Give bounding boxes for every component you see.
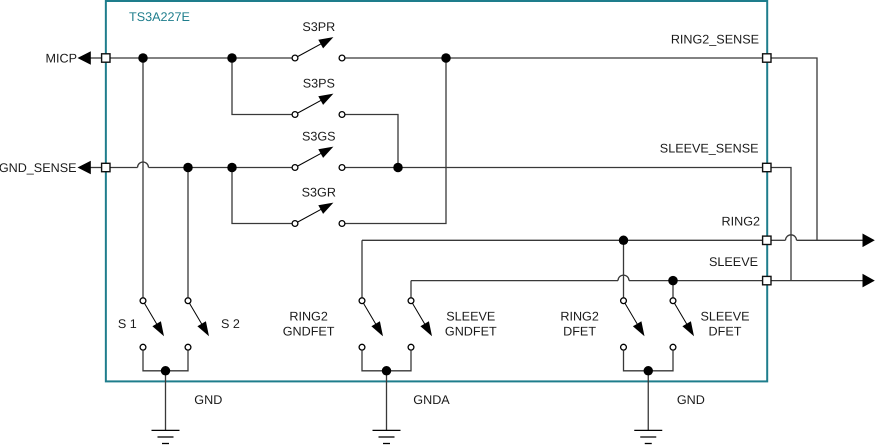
svg-text:S3PR: S3PR xyxy=(302,20,335,34)
svg-text:RING2: RING2 xyxy=(289,310,328,324)
svg-text:GND: GND xyxy=(677,393,705,407)
wire RING2 external to arrow xyxy=(797,239,864,241)
arrow GND_SENSE input xyxy=(78,161,91,175)
ground GND xyxy=(152,430,180,443)
wire GNDFET common bus xyxy=(362,351,411,431)
wire hop SLEEVE over RING2 DFET feed xyxy=(618,275,629,281)
wire hop GND_SENSE over S1 feed xyxy=(138,162,149,168)
arrow SLEEVE output xyxy=(863,274,875,288)
pin RING2 port xyxy=(763,236,771,244)
wire RING2 to RING2 DFET xyxy=(623,240,625,297)
svg-text:GND_SENSE: GND_SENSE xyxy=(0,161,77,175)
switch S2 xyxy=(185,298,209,350)
wire MICP to S1 xyxy=(142,58,144,297)
svg-text:SLEEVE: SLEEVE xyxy=(446,310,495,324)
svg-text:S3GS: S3GS xyxy=(302,130,336,144)
svg-text:SLEEVE: SLEEVE xyxy=(700,310,749,324)
wire S3PR to RING2_SENSE xyxy=(345,57,762,59)
svg-text:GNDFET: GNDFET xyxy=(445,324,497,338)
wire RING2_SENSE external xyxy=(771,58,817,240)
wire GND_SENSE pin stub xyxy=(91,167,102,169)
svg-text:GNDFET: GNDFET xyxy=(283,324,335,338)
switch S3PR xyxy=(292,37,345,61)
wire MICP pin stub xyxy=(91,57,102,59)
wire S1/S2 common bus xyxy=(143,351,188,431)
node S3PR/S3GR out xyxy=(441,53,451,63)
wire MICP to S3PS xyxy=(232,58,292,115)
switch RING2 GNDFET xyxy=(359,298,383,350)
wire RING2 to RING2 GNDFET xyxy=(361,240,363,297)
wire SLEEVE bus left xyxy=(411,280,618,282)
svg-text:S3GR: S3GR xyxy=(302,186,336,200)
svg-text:GND: GND xyxy=(194,393,222,407)
wire SLEEVE external to arrow xyxy=(771,280,863,282)
node MICP/S1 xyxy=(138,53,148,63)
arrow RING2 output xyxy=(863,234,875,248)
node GND_SENSE/S3GR xyxy=(227,163,237,173)
arrow MICP input xyxy=(78,51,91,65)
svg-text:S 2: S 2 xyxy=(221,317,240,331)
node MICP/S3PS xyxy=(227,53,237,63)
pin SLEEVE_SENSE port xyxy=(763,163,771,171)
node S1/S2 junction xyxy=(161,366,171,376)
IC body U1 TS3A227E xyxy=(106,1,767,381)
ground GND xyxy=(634,430,662,443)
wire GND_SENSE to S2 xyxy=(187,168,189,298)
node S3PS/S3GS out xyxy=(393,163,403,173)
switch SLEEVE GNDFET xyxy=(408,298,432,350)
svg-text:S 1: S 1 xyxy=(118,317,137,331)
svg-text:GNDA: GNDA xyxy=(413,393,450,407)
node GND_SENSE/S2 xyxy=(183,163,193,173)
wire GND_SENSE to S3GR xyxy=(232,168,292,224)
wire DFET common bus xyxy=(624,351,674,431)
wire hop RING2 over SLEEVE_SENSE drop xyxy=(786,235,797,241)
wire SLEEVE to SLEEVE GNDFET xyxy=(410,281,412,298)
pin RING2_SENSE port xyxy=(763,54,771,62)
wire GND_SENSE bus right xyxy=(149,167,292,169)
svg-text:SLEEVE: SLEEVE xyxy=(709,255,758,269)
switch SLEEVE DFET xyxy=(670,298,694,350)
pin SLEEVE port xyxy=(763,276,771,284)
svg-text:RING2_SENSE: RING2_SENSE xyxy=(671,32,759,46)
svg-text:RING2: RING2 xyxy=(560,310,599,324)
svg-text:TS3A227E: TS3A227E xyxy=(129,10,190,24)
switch RING2 DFET xyxy=(621,298,645,350)
wire SLEEVE_SENSE external xyxy=(771,168,791,281)
wire SLEEVE to SLEEVE DFET xyxy=(672,281,674,298)
wire GND_SENSE bus left xyxy=(110,167,137,169)
svg-text:MICP: MICP xyxy=(46,52,77,66)
switch S3GS xyxy=(292,147,345,171)
wire S3GS to SLEEVE_SENSE xyxy=(345,167,762,169)
node GNDFET junction xyxy=(382,366,392,376)
svg-text:DFET: DFET xyxy=(563,324,596,338)
ground GNDA xyxy=(373,430,401,443)
node DFET junction xyxy=(644,366,654,376)
svg-text:DFET: DFET xyxy=(709,324,742,338)
svg-text:RING2: RING2 xyxy=(722,215,761,229)
wire MICP bus xyxy=(110,57,291,59)
wire RING2 external left xyxy=(771,239,785,241)
switch S3PS xyxy=(292,94,345,118)
pin MICP port xyxy=(102,54,110,62)
switch S3GR xyxy=(292,203,345,227)
svg-text:S3PS: S3PS xyxy=(303,77,335,91)
wire RING2 bus xyxy=(362,239,762,241)
wire S3GR out xyxy=(345,58,446,224)
node SLEEVE/DFET xyxy=(668,276,678,286)
switch S1 xyxy=(140,298,164,350)
wire SLEEVE bus right xyxy=(629,280,762,282)
svg-text:SLEEVE_SENSE: SLEEVE_SENSE xyxy=(660,142,759,156)
wire S3PS out xyxy=(345,115,398,168)
pin GND_SENSE port xyxy=(102,163,110,171)
node RING2/DFET xyxy=(619,236,629,246)
